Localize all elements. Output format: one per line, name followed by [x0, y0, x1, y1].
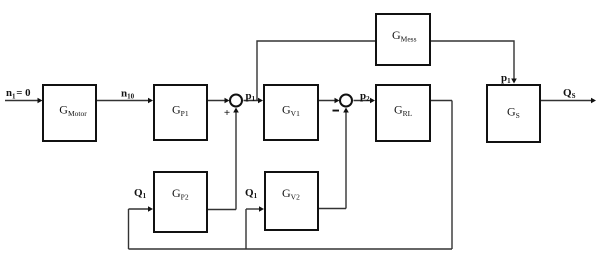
svg-text:= 0: = 0 — [16, 87, 30, 99]
svg-text:+: + — [224, 107, 230, 119]
